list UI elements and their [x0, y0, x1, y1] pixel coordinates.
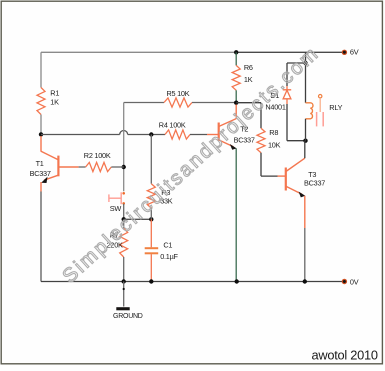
diode D1	[283, 86, 291, 104]
signature awotol 2010	[312, 347, 378, 362]
node relay top junction	[303, 61, 307, 65]
label R7 value 220K	[107, 240, 123, 249]
terminal 6V	[342, 50, 347, 55]
label GROUND	[113, 313, 143, 320]
node T2 emitter bottom junction	[235, 279, 239, 283]
relay coil RLY	[306, 103, 313, 119]
wire R6 top lead	[235, 52, 237, 65]
wire R7 bottom lead	[123, 257, 125, 282]
ground	[116, 307, 129, 310]
wire T1 emitter to 0V rail	[40, 192, 42, 282]
svg-text:1K: 1K	[244, 75, 253, 84]
wire left vertical upper	[40, 52, 42, 87]
label R8 value 10K	[268, 140, 281, 149]
svg-text:GROUND: GROUND	[113, 313, 143, 320]
wire D1 lower lead	[286, 104, 288, 141]
wire R8 bottom to T3 base	[261, 153, 278, 176]
resistor R4	[165, 130, 190, 139]
wire R4 to T2 base	[190, 134, 207, 136]
svg-text:T1: T1	[36, 159, 44, 168]
resistor R7	[120, 228, 128, 257]
wire C1 top lead	[150, 219, 152, 247]
node SW/R7/C1 junction	[122, 217, 126, 221]
resistor R1	[37, 88, 45, 115]
wire R5 left lead	[124, 102, 164, 104]
resistor R3	[147, 184, 155, 208]
svg-text:BC337: BC337	[30, 169, 51, 178]
wire D1 upper lead	[286, 63, 288, 86]
wire R2 right lead	[111, 166, 123, 168]
resistor R5	[164, 98, 192, 107]
wire R6 bottom lead	[235, 90, 237, 102]
svg-text:awotol 2010: awotol 2010	[312, 347, 378, 362]
svg-text:R2 100K: R2 100K	[84, 151, 111, 160]
label RLY	[329, 103, 342, 112]
node R7 ground junction	[122, 279, 126, 283]
label 0V	[350, 278, 359, 287]
label C1 value 0.1uF	[160, 252, 178, 261]
terminal 0V	[342, 279, 347, 284]
resistor R2	[86, 162, 112, 171]
wire left vertical R1 to node	[40, 115, 42, 135]
node R2 junction	[122, 165, 126, 169]
wire relay bottom horizontal	[287, 140, 306, 142]
node top rail R6 junction	[234, 50, 238, 54]
watermark simplecircuitsandprojects.com	[59, 42, 324, 288]
label R3	[161, 188, 170, 197]
svg-text:0V: 0V	[350, 278, 359, 287]
label R7	[110, 230, 119, 239]
label R2 100K	[84, 151, 111, 160]
label R4 100K	[159, 121, 186, 130]
wire switch column upper	[123, 103, 125, 192]
svg-text:RLY: RLY	[329, 103, 342, 112]
label R6 value 1K	[244, 75, 253, 84]
svg-text:0.1µF: 0.1µF	[160, 252, 178, 261]
wire T2 emitter to 0V rail	[235, 149, 237, 282]
node T1 collector junction	[39, 132, 43, 136]
wire collector node to R4 (with hop)	[41, 131, 165, 135]
label T1	[36, 159, 44, 168]
label R1 value 1K	[50, 98, 59, 107]
svg-text:C1: C1	[163, 241, 172, 250]
label T1 part BC337	[30, 169, 51, 178]
label D1	[270, 91, 279, 100]
wire R3 bottom lead	[150, 208, 152, 219]
capacitor C1	[145, 248, 159, 253]
node C1 top junction	[149, 217, 153, 221]
wire node to C1 branch	[124, 218, 152, 220]
wire relay coil upper lead	[305, 63, 307, 103]
wire R3 top lead	[150, 135, 152, 184]
label R3 value 33K	[160, 197, 173, 206]
node ground lead dot	[123, 288, 125, 290]
wire top rail left (6V)	[41, 51, 236, 53]
node T3 emitter bottom junction	[303, 279, 307, 283]
svg-text:BC337: BC337	[304, 178, 325, 187]
label R6	[244, 63, 253, 72]
label R5 10K	[167, 89, 190, 98]
resistor R8	[257, 128, 265, 153]
relay contact	[317, 95, 324, 127]
label 6V	[350, 48, 359, 57]
wire 6V rail to relay	[305, 52, 307, 63]
wire relay top horizontal	[287, 62, 306, 64]
svg-text:R5 10K: R5 10K	[167, 89, 190, 98]
wire R2 left lead	[79, 166, 86, 168]
svg-text:1K: 1K	[50, 98, 59, 107]
node relay bottom junction	[303, 139, 307, 143]
label T3	[308, 170, 316, 179]
label D1 part N4001	[265, 102, 285, 111]
wire R7 top lead	[123, 219, 125, 228]
svg-text:R1: R1	[50, 89, 59, 98]
label R1	[50, 89, 59, 98]
wire relay coil lower lead	[305, 119, 307, 141]
transistor T1	[41, 136, 79, 192]
wire node to R8 top	[236, 103, 261, 129]
svg-text:SW: SW	[110, 204, 122, 213]
node C1 bottom junction	[149, 279, 153, 283]
wire ground lead	[123, 282, 125, 307]
svg-text:R4 100K: R4 100K	[159, 121, 186, 130]
wire T3 emitter to 0V rail	[304, 228, 306, 282]
label R8	[269, 128, 278, 137]
transistor T3	[278, 158, 306, 228]
wire T3 collector	[304, 141, 306, 159]
wire switch to node	[123, 204, 125, 220]
svg-text:10K: 10K	[268, 140, 281, 149]
svg-text:6V: 6V	[350, 48, 359, 57]
wire bottom rail (0V)	[41, 281, 344, 283]
node T2 collector junction	[234, 101, 238, 105]
node R3 tap junction	[149, 132, 153, 136]
switch SW	[109, 192, 125, 205]
label T3 part BC337	[304, 178, 325, 187]
svg-text:R8: R8	[269, 128, 278, 137]
label T2 part BC337	[234, 136, 255, 145]
label C1	[163, 241, 172, 250]
label SW	[110, 204, 122, 213]
transistor T2	[207, 105, 237, 150]
wire top rail right (6V)	[236, 51, 344, 53]
resistor R6	[232, 65, 240, 90]
wire R5 right lead	[192, 102, 236, 104]
svg-text:R6: R6	[244, 63, 253, 72]
wire C1 bottom lead	[150, 254, 152, 281]
label T2	[240, 125, 248, 134]
